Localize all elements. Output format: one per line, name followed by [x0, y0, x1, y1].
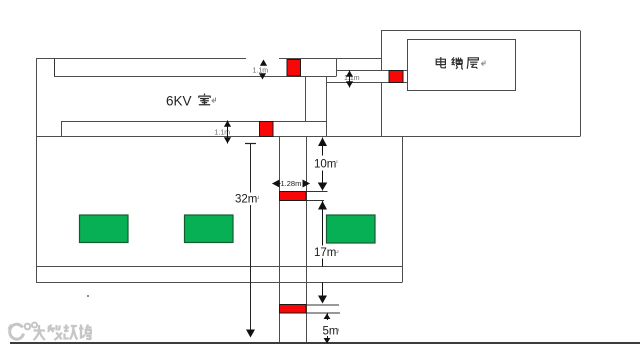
dimension 32m [234, 144, 263, 338]
upper right building left edge upper [381, 31, 383, 71]
red barrier R4 bottom right line [306, 312, 340, 314]
equipment green box G3 [327, 215, 376, 243]
dimension 1.1m duct A [253, 60, 269, 80]
dimension 17m [313, 201, 343, 304]
return mark after 5m [336, 329, 339, 332]
shaft wall below duct B [326, 77, 328, 137]
return mark after 10m [335, 160, 338, 163]
cable shaft right wall [306, 137, 308, 344]
dimension 10m [312, 138, 341, 191]
glyph: 电 [436, 57, 445, 68]
upper right building left edge lower [381, 83, 383, 137]
cable shaft left wall [279, 137, 281, 344]
return mark after 17m [336, 250, 339, 253]
fire barrier R4 in shaft basement [280, 305, 307, 314]
wall: left outer wall [36, 59, 38, 283]
stray dot [87, 295, 89, 297]
wire: top wall line left segment [36, 58, 246, 60]
watermark logo icon [9, 323, 38, 340]
equipment green box G1 [80, 215, 129, 243]
fire barrier R2 in duct C [260, 122, 274, 137]
watermark text 大数跨境 [34, 325, 92, 341]
svg-text:1.28m: 1.28m [281, 179, 302, 188]
duct B top step vertical [336, 59, 338, 77]
return mark [212, 98, 216, 103]
glyph: 室 [199, 94, 211, 105]
ground line [10, 342, 640, 344]
upper right building right edge [580, 31, 582, 137]
svg-text:5m: 5m [323, 326, 339, 338]
fire barrier R1 in duct A [287, 60, 301, 77]
dimension 5m [323, 314, 339, 344]
dimension 1.28m [272, 179, 310, 188]
wire: top wall line right segment [279, 58, 381, 60]
duct C top line [61, 121, 327, 123]
glyph: 层 [467, 58, 478, 69]
floor slab top line [36, 266, 402, 268]
return mark [482, 61, 486, 66]
duct B top line [336, 70, 407, 72]
red barrier R3 top right line [306, 191, 328, 193]
return mark after 32m [256, 196, 259, 199]
svg-text:6KV: 6KV [166, 94, 192, 109]
label cable layer 电缆层 [436, 57, 485, 69]
glyph: 缆 [452, 57, 463, 69]
svg-text:17m: 17m [314, 247, 336, 259]
dimension 1.1m duct C [215, 121, 232, 144]
floor slab bottom line [36, 282, 402, 284]
fire barrier R3 in shaft [280, 192, 307, 201]
room right wall [402, 137, 404, 283]
duct A left edge [54, 59, 56, 77]
upper right building top edge [381, 30, 580, 32]
svg-text:10m: 10m [314, 159, 336, 171]
svg-text:32m: 32m [235, 194, 257, 206]
cable layer inner room box [408, 40, 516, 91]
6KV room right wall [305, 77, 307, 122]
fire barrier R5 at cable layer wall [389, 71, 403, 83]
red barrier R4 top right line [306, 304, 339, 306]
dimension 1.1m duct B [344, 71, 360, 88]
duct A bottom line [54, 76, 336, 78]
duct B bottom line [327, 82, 408, 84]
room top slab line [36, 136, 580, 138]
equipment green box G2 [185, 215, 234, 243]
label 6KV room [166, 94, 216, 109]
duct C left edge [61, 122, 63, 137]
red barrier R3 bottom right line [306, 200, 324, 202]
